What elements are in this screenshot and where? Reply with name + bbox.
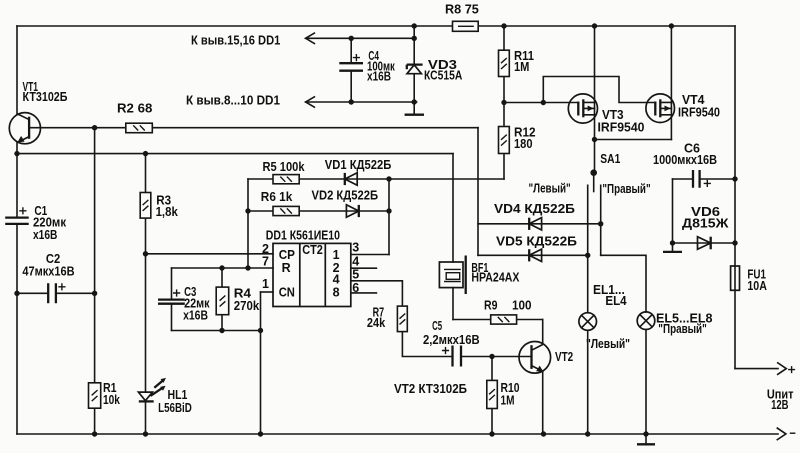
junction emitter rail / left rail (14, 151, 19, 156)
wire feedback column x248 (247, 179, 249, 268)
svg-text:х16В: х16В (367, 70, 391, 84)
capacitor C4 (339, 54, 363, 71)
wire SA1 left contact to EL1-4 (587, 185, 589, 312)
wire pin4 stub (351, 267, 377, 269)
junction VT2 emitter rail (541, 431, 546, 436)
junction VD3 row1 (412, 36, 417, 41)
junction SA1 common pole (590, 169, 597, 176)
svg-text:270k: 270k (234, 299, 260, 313)
wire R1 column (94, 293, 96, 434)
svg-text:"Правый": "Правый" (658, 322, 707, 336)
resistor R10 (487, 380, 498, 408)
wire C6 row (673, 178, 736, 180)
junction VT3 source rail (592, 23, 597, 28)
ground under EL5-8 node (637, 434, 655, 444)
transistor VT4 (p-MOSFET) (646, 94, 675, 123)
wire R12 bottom drop (503, 154, 505, 179)
junction C5-R10-VT2 base (489, 354, 494, 359)
diode VD4 (529, 218, 541, 230)
junction VD2 right (386, 208, 391, 213)
svg-text:CN: CN (279, 286, 295, 300)
junction EL1-4 bottom rail (585, 431, 590, 436)
lamp EL5...EL8 (637, 312, 655, 330)
junction R4 top (219, 265, 224, 270)
svg-text:HL1: HL1 (168, 388, 188, 402)
wire CP row (pin2) (146, 253, 274, 255)
junction VD3 row2 (412, 99, 417, 104)
svg-text:R8 75: R8 75 (445, 2, 479, 16)
wire VT3 drain-source column (594, 26, 596, 140)
wire base-bottom column x94.6 (94, 128, 96, 294)
junction VT3 drain row (592, 137, 597, 142)
transistor VT2 (519, 342, 551, 374)
ground at VD6 anode (663, 243, 682, 252)
output arrow +12V (778, 363, 787, 375)
svg-text:180: 180 (514, 137, 533, 151)
svg-text:R6 1k: R6 1k (261, 190, 293, 204)
junction C6 right (732, 176, 737, 181)
svg-text:24k: 24k (367, 316, 385, 330)
wire R7 bottom to C5 (402, 332, 452, 357)
wire R4 column (221, 268, 223, 331)
wire CN column to bottom rail (260, 292, 262, 434)
wire pin3 to column (351, 254, 389, 256)
wire pin7 row (172, 267, 274, 269)
wire C6 left drop to VD6 (672, 179, 674, 243)
junction VD6 right (732, 240, 737, 245)
svg-text:К выв.8...10 DD1: К выв.8...10 DD1 (186, 94, 280, 108)
svg-text:12В: 12В (771, 398, 788, 412)
svg-text:R9: R9 (484, 299, 498, 313)
ground under VD3 (405, 114, 424, 116)
fuse FU1 (731, 266, 740, 290)
wire C2 row right (56, 292, 95, 294)
junction EL5-8 bottom rail (643, 431, 648, 436)
wire left rail from top corner to VT1 collector (16, 26, 18, 114)
junction R6 row left (245, 208, 250, 213)
svg-text:R: R (282, 261, 291, 275)
junction R4 bottom (219, 328, 224, 333)
wire VD6 row (673, 242, 736, 244)
svg-text:100: 100 (512, 299, 532, 313)
svg-text:L56BiD: L56BiD (158, 401, 192, 415)
arrow to pins 15,16 DD1 (306, 33, 315, 43)
wire VD3 column (413, 26, 415, 115)
junction CN column / C3 row (258, 328, 263, 333)
diode VD1 (345, 173, 357, 185)
svg-text:1M: 1M (501, 394, 515, 408)
arrow to pins 8-10 DD1 (306, 97, 315, 107)
svg-text:1: 1 (262, 277, 269, 291)
junction VD6 left ground (670, 240, 675, 245)
svg-text:4: 4 (352, 254, 359, 268)
transistor VT1 (9, 113, 40, 144)
wire SA1 right contact down (600, 185, 602, 255)
wire pin6 stub (351, 292, 377, 294)
wire top supply rail (17, 25, 735, 27)
wire gate row to VT3 (504, 102, 579, 104)
resistor R2 (126, 123, 153, 133)
junction CP row / R3 column (143, 251, 148, 256)
wire arrow row1 (K vyv.15,16) (306, 37, 415, 39)
zener diode VD6 (698, 237, 711, 250)
svg-text:1000мкх16В: 1000мкх16В (653, 153, 717, 167)
svg-text:VT2 КТ3102Б: VT2 КТ3102Б (394, 382, 467, 396)
wire output plus lead (735, 368, 778, 370)
wire VT1 base to R2 (29, 127, 126, 129)
svg-text:CT2: CT2 (302, 243, 323, 257)
svg-text:VD5 КД522Б: VD5 КД522Б (496, 235, 577, 249)
svg-text:10k: 10k (103, 393, 120, 407)
svg-text:х16В: х16В (183, 309, 208, 323)
diode VD2 (346, 205, 358, 217)
svg-text:R5 100k: R5 100k (263, 160, 305, 174)
junction VD5 right (585, 253, 590, 258)
wire R12 column (503, 103, 505, 127)
svg-text:2,2мкх16В: 2,2мкх16В (423, 333, 480, 347)
svg-text:VD2 КД522Б: VD2 КД522Б (312, 189, 379, 203)
sound emitter BF1 (439, 256, 465, 295)
junction gate branch (541, 100, 546, 105)
svg-text:К выв.15,16 DD1: К выв.15,16 DD1 (191, 33, 280, 47)
junction R11-R12 gate node (501, 100, 506, 105)
junction R11 top rail (501, 23, 506, 28)
wire SA1 lever (593, 173, 595, 192)
svg-text:47мкх16В: 47мкх16В (22, 265, 74, 279)
capacitor C1 (5, 207, 29, 224)
junction C4 top (349, 36, 354, 41)
wire left rail C1 to bottom-left corner (16, 224, 18, 434)
svg-text:8: 8 (333, 286, 340, 300)
wire R10 column (491, 357, 493, 435)
svg-text:5: 5 (352, 268, 359, 282)
wire pin1 CN bend (261, 291, 274, 293)
junction C4 bottom (349, 99, 354, 104)
junction C2 left (14, 291, 19, 296)
wire HL1 to bottom rail (145, 402, 147, 435)
svg-text:Д815Ж: Д815Ж (682, 217, 729, 231)
junction CN column bottom rail (258, 431, 263, 436)
capacitor C6 (693, 170, 711, 188)
svg-text:10A: 10A (747, 279, 767, 293)
svg-text:VT2: VT2 (555, 350, 573, 364)
junction C2 right (92, 291, 97, 296)
wire C4 column (350, 38, 352, 102)
wire VT4 drain-source column (670, 26, 672, 140)
wire C5 to VT2 base (461, 356, 532, 358)
resistor R5 (273, 175, 299, 184)
junction R1 bottom rail (92, 431, 97, 436)
svg-text:6: 6 (352, 281, 359, 295)
wire EL1-4 to bottom rail (587, 330, 589, 434)
wire R9 row (453, 319, 543, 321)
svg-text:х16В: х16В (33, 228, 57, 242)
wire pin5 to R7 (351, 281, 403, 306)
resistor R9 (491, 315, 517, 324)
LED HL1 (138, 378, 166, 402)
junction VD4 right (598, 221, 603, 226)
resistor R8 (low value) (453, 21, 479, 31)
minus sign at output (790, 432, 796, 434)
wire C3/R4 bottom row (172, 330, 261, 332)
svg-text:КС515А: КС515А (424, 68, 462, 82)
svg-text:1: 1 (333, 248, 340, 262)
wire SA1 common (594, 140, 596, 173)
wire BF1 column upper (452, 154, 454, 262)
wire drain row VT3-VT4 (595, 139, 672, 141)
svg-text:EL4: EL4 (605, 294, 626, 308)
wire R5/VD1 row to R12 bottom (248, 178, 504, 180)
svg-text:"Правый": "Правый" (602, 182, 650, 196)
wire R6/VD2 row (248, 210, 389, 212)
wire right column x735 (734, 26, 736, 369)
resistor R7 (397, 306, 407, 332)
lamp EL1...EL4 (579, 313, 597, 331)
plus sign at output (788, 366, 795, 373)
wire R3 column top (145, 154, 147, 193)
svg-text:КТ3102Б: КТ3102Б (23, 90, 68, 104)
wire C3 column (171, 268, 173, 331)
resistor R11 (499, 50, 510, 76)
wire VT2 emitter drop (542, 371, 544, 434)
wire drop x478 to VD4/VD5 rows (477, 128, 479, 256)
wire bottom common rail (17, 433, 778, 435)
transistor VT3 (p-MOSFET) (568, 94, 597, 123)
junction VD1 right (386, 176, 391, 181)
wire VT2 collector riser (542, 320, 544, 345)
wire R2 to right drop (152, 127, 478, 129)
wire VT1 emitter rail to BF1 drop (17, 153, 453, 155)
resistor R4 (216, 287, 229, 315)
wire column x389 VD1-VD2-pin3 (388, 179, 390, 255)
wire right contact over to EL5-8 (601, 255, 646, 312)
zener diode VD3 (407, 65, 423, 74)
wire gate branch up-over to VT4 (543, 77, 655, 103)
svg-text:"Левый": "Левый" (586, 337, 630, 351)
resistor R1 (89, 383, 101, 408)
junction HL1 bottom rail (143, 431, 148, 436)
junction VT4 source rail (669, 23, 674, 28)
svg-text:DD1 К561ИЕ10: DD1 К561ИЕ10 (266, 228, 340, 242)
junction VD3 top rail (412, 23, 417, 28)
capacitor C5 (442, 346, 461, 367)
resistor R6 (273, 206, 299, 215)
svg-text:"Левый": "Левый" (529, 182, 571, 196)
wire R3 to HL1 (145, 218, 147, 392)
wire VD4 row (478, 223, 601, 225)
svg-text:1,8k: 1,8k (156, 205, 178, 219)
capacitor C3 (158, 289, 185, 303)
wire EL5-8 to bottom rail (645, 330, 647, 435)
IC DD1 K561IE10 counter body (273, 243, 351, 306)
capacitor C2 (48, 283, 65, 303)
wire VT1 emitter down / left rail to C1 (16, 142, 18, 218)
diode VD5 (529, 249, 541, 261)
wire C2 row left (17, 292, 48, 294)
svg-text:C5: C5 (432, 319, 442, 333)
wire arrow row2 (K vyv.8-10) (306, 101, 417, 103)
svg-text:HPA24AX: HPA24AX (471, 271, 520, 285)
svg-text:VD1 КД522Б: VD1 КД522Б (325, 158, 392, 172)
svg-text:VD4 КД522Б: VD4 КД522Б (494, 202, 575, 216)
svg-text:1M: 1M (514, 60, 529, 74)
svg-text:3: 3 (352, 241, 359, 255)
resistor R3 (140, 193, 151, 219)
svg-text:4: 4 (333, 273, 340, 287)
svg-text:IRF9540: IRF9540 (678, 105, 720, 119)
svg-text:R2 68: R2 68 (117, 101, 152, 115)
wire VD5 row (478, 254, 588, 256)
wire BF1 column lower (452, 288, 454, 320)
svg-text:7: 7 (262, 255, 269, 269)
junction VT1 base / column (92, 125, 97, 130)
wire R11 column (503, 26, 505, 103)
resistor R12 (499, 127, 510, 154)
output arrow minus (777, 428, 786, 440)
junction R3 top (143, 151, 148, 156)
junction pin7 row (245, 265, 250, 270)
svg-text:SA1: SA1 (600, 152, 620, 166)
svg-text:IRF9540: IRF9540 (598, 121, 645, 135)
junction R10 bottom rail (489, 431, 494, 436)
svg-text:CP: CP (279, 248, 295, 262)
